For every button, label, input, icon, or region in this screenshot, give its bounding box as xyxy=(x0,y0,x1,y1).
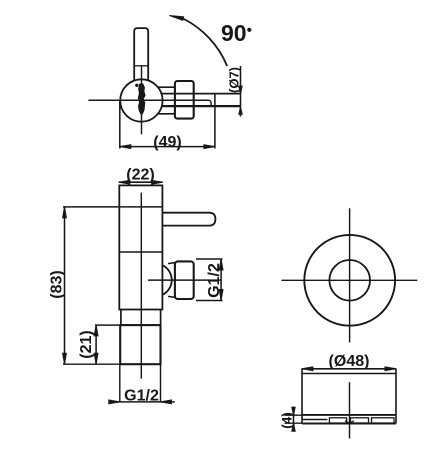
svg-text:(83): (83) xyxy=(49,270,66,298)
svg-text:90: 90 xyxy=(221,20,247,46)
svg-text:(21): (21) xyxy=(78,330,95,358)
svg-text:(22): (22) xyxy=(126,167,154,184)
svg-text:(Ø48): (Ø48) xyxy=(329,353,370,370)
svg-text:G1/2: G1/2 xyxy=(206,263,223,298)
svg-text:G1/2: G1/2 xyxy=(124,388,159,405)
svg-text:(4): (4) xyxy=(280,412,295,429)
svg-text:(49): (49) xyxy=(153,134,181,151)
svg-text:(Ø7): (Ø7) xyxy=(227,67,242,93)
